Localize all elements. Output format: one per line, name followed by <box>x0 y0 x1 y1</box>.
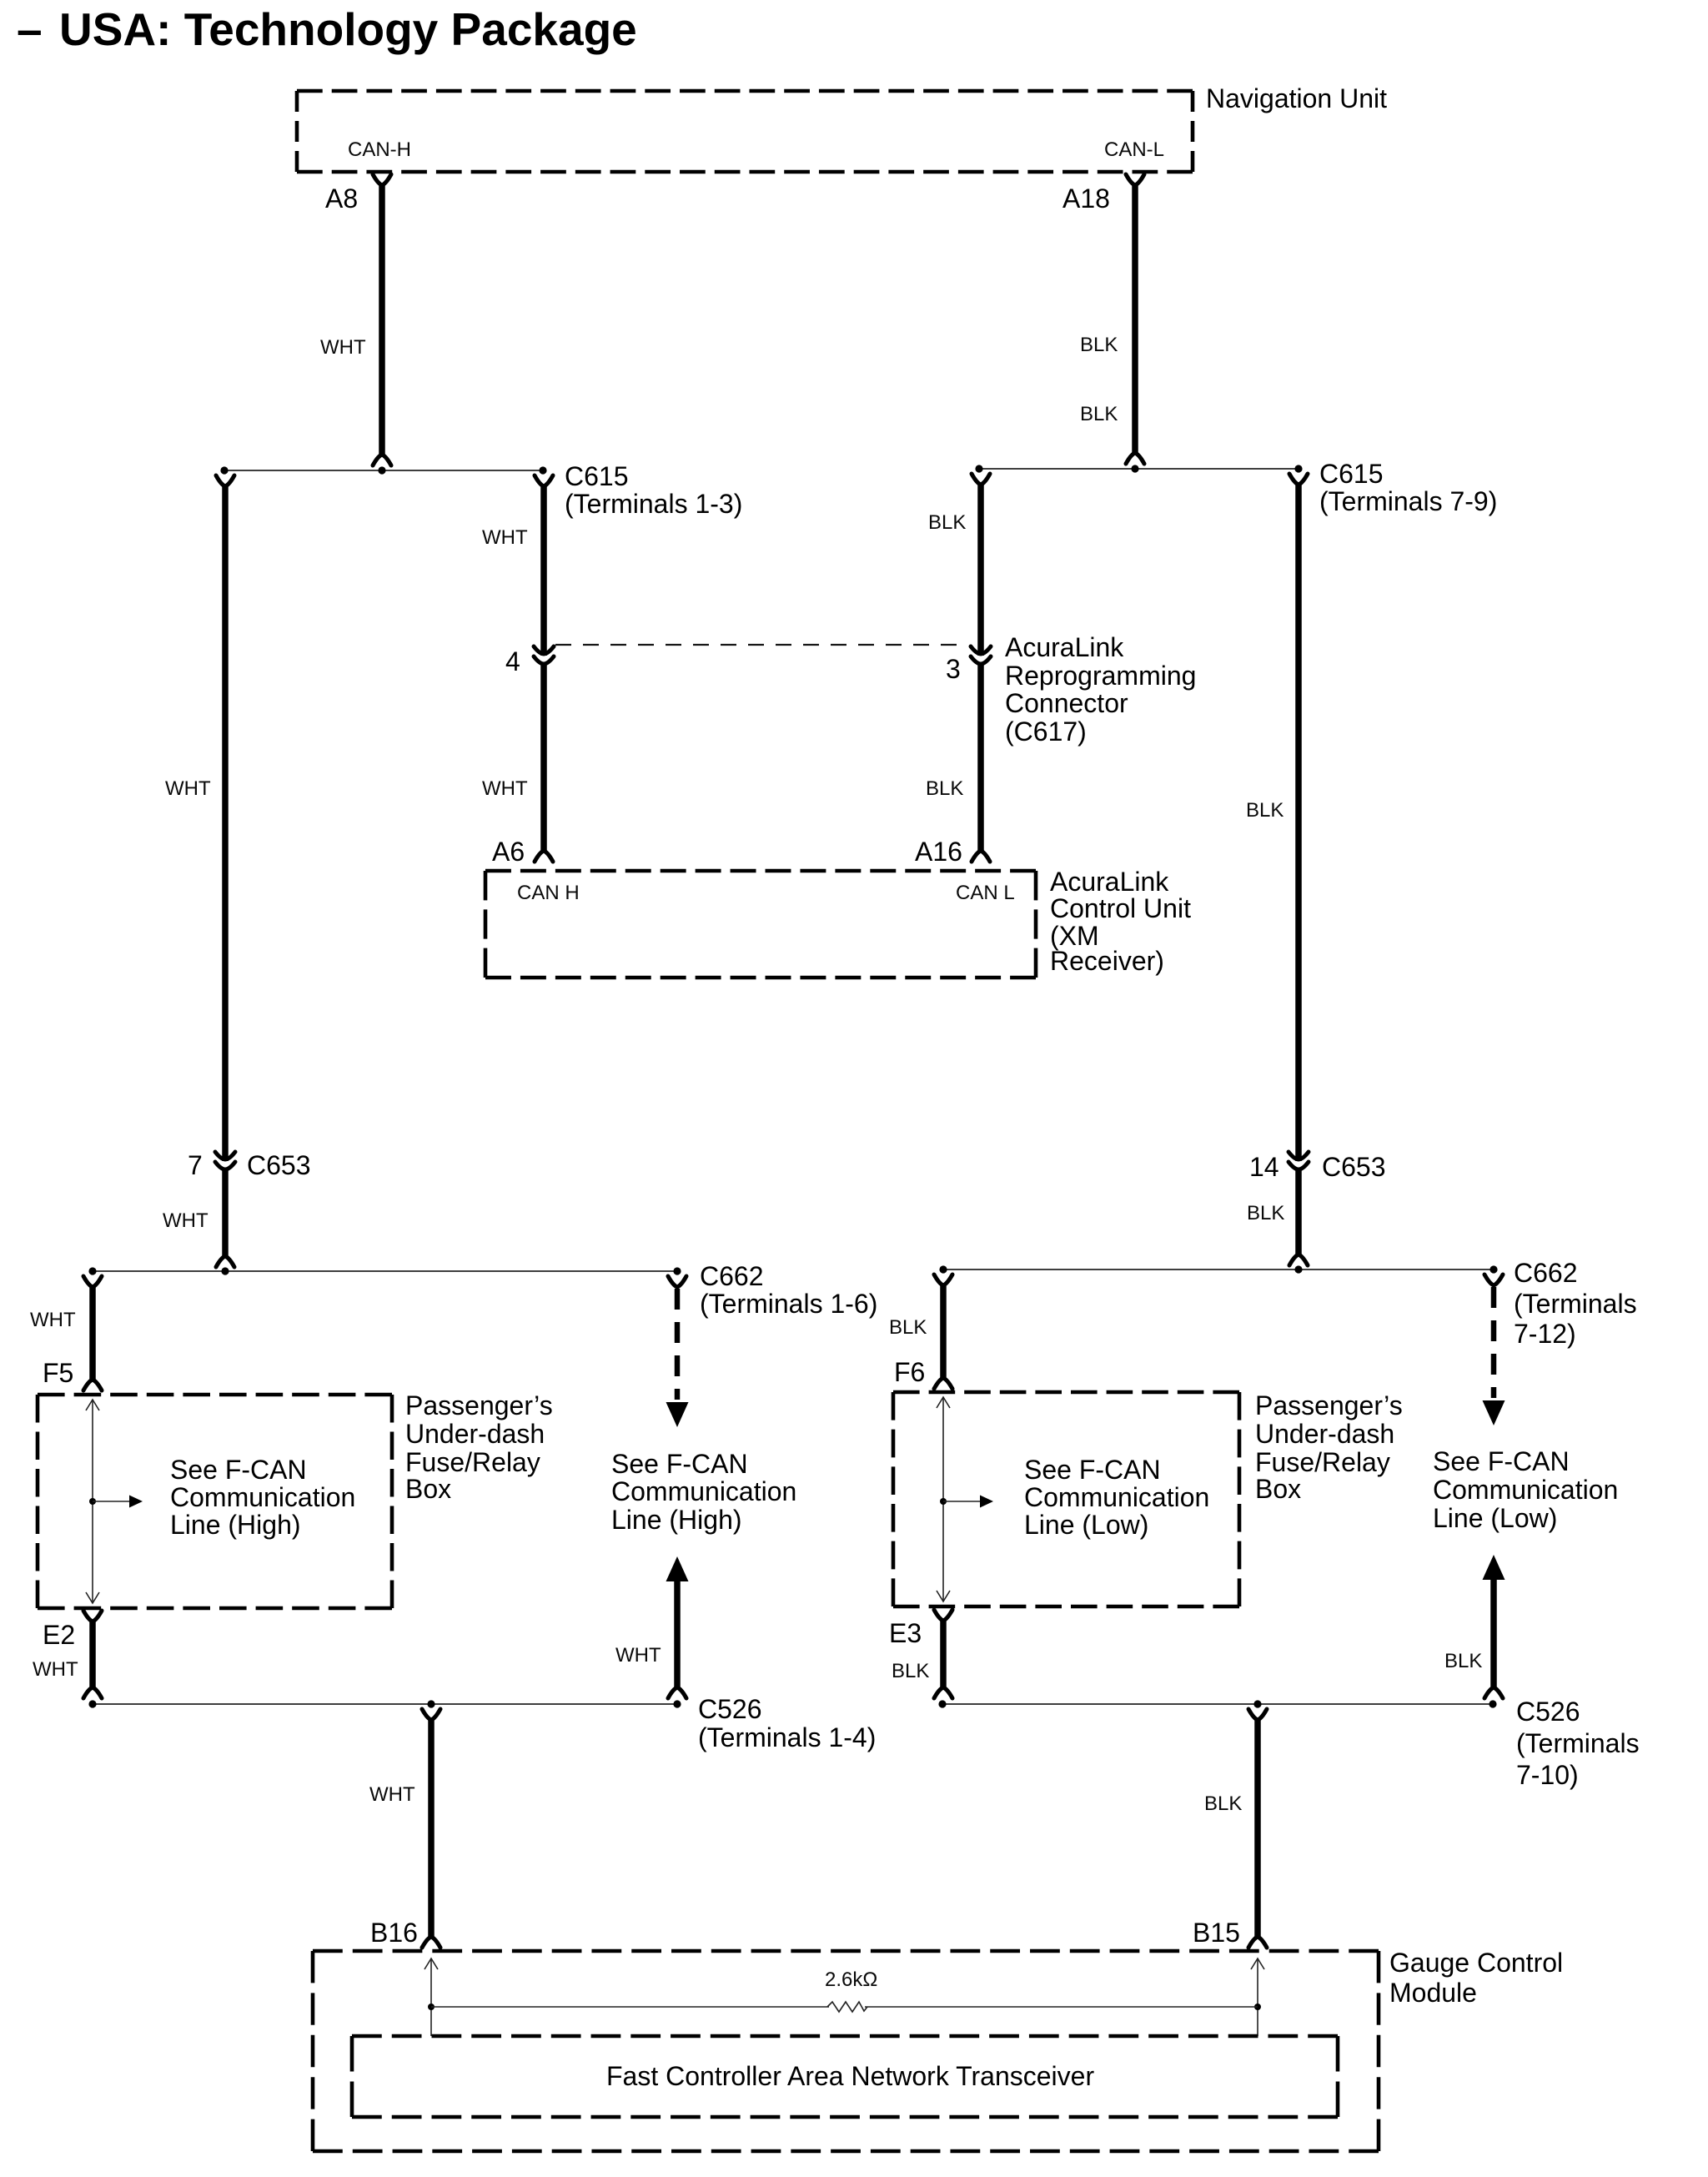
wire WHT: C615 to connector C653 pin 7 <box>216 475 234 486</box>
node dot left <box>975 465 982 472</box>
svg-text:CAN-L: CAN-L <box>1104 138 1164 161</box>
svg-text:7: 7 <box>188 1150 203 1180</box>
svg-text:Communication: Communication <box>170 1482 355 1512</box>
svg-text:4: 4 <box>505 646 520 676</box>
wire BLK: connector 3 to A16 <box>977 662 984 851</box>
svg-text:2.6kΩ: 2.6kΩ <box>825 1968 877 1991</box>
junction line C615 (Terminals 7-9) <box>979 468 1299 470</box>
wire WHT: C662 to F5 <box>83 1276 102 1287</box>
svg-text:Module: Module <box>1389 1978 1477 2008</box>
node dot middle <box>1294 1265 1302 1273</box>
Navigation Unit box <box>297 89 1193 93</box>
svg-text:Passenger’s: Passenger’s <box>1255 1390 1403 1420</box>
svg-text:BLK: BLK <box>926 777 963 800</box>
wire BLK: C653 to C662 <box>1295 1168 1302 1254</box>
node dot middle <box>221 1267 229 1275</box>
inline connector C653 pin 14 <box>1289 1152 1309 1159</box>
wire BLK: C615 to reprogramming connector pin 3 <box>972 474 990 485</box>
svg-text:AcuraLink: AcuraLink <box>1005 632 1124 662</box>
svg-text:(Terminals 7-9): (Terminals 7-9) <box>1319 486 1497 516</box>
arrow WHT: C526 up toward F-CAN line (High) <box>666 1556 689 1581</box>
svg-text:C615: C615 <box>565 461 629 491</box>
node dot middle <box>378 466 385 474</box>
svg-text:WHT: WHT <box>33 1658 78 1681</box>
svg-text:WHT: WHT <box>30 1309 76 1331</box>
svg-text:USA: Technology Package: USA: Technology Package <box>59 3 637 55</box>
svg-text:WHT: WHT <box>165 777 211 800</box>
svg-text:E2: E2 <box>43 1620 75 1650</box>
wire BLK: C615 to connector C653 pin 14 <box>1289 474 1308 485</box>
junction line C662 (Terminals 7-12) <box>943 1269 1494 1270</box>
junction line C526 (Terminals 1-4) <box>93 1703 677 1705</box>
node dot middle <box>427 1700 435 1707</box>
wire WHT: C653 to C662 <box>222 1168 229 1256</box>
Gauge Control Module box <box>313 1949 1379 1953</box>
svg-text:Box: Box <box>405 1474 451 1504</box>
svg-text:B15: B15 <box>1193 1918 1240 1948</box>
svg-text:C653: C653 <box>247 1150 311 1180</box>
svg-text:BLK: BLK <box>1444 1650 1482 1672</box>
svg-text:(Terminals 1-4): (Terminals 1-4) <box>698 1722 876 1752</box>
wire WHT: C615 to reprogramming connector pin 4 <box>535 475 553 486</box>
svg-text:Box: Box <box>1255 1474 1301 1504</box>
svg-text:Fast Controller Area Network T: Fast Controller Area Network Transceiver <box>606 2061 1094 2091</box>
svg-text:C615: C615 <box>1319 459 1384 489</box>
node dot right <box>539 466 546 474</box>
Fast Controller Area Network Transceiver box <box>352 2034 1338 2039</box>
svg-text:BLK: BLK <box>928 511 966 534</box>
svg-text:See F-CAN: See F-CAN <box>1024 1455 1161 1485</box>
node dot middle <box>1131 465 1138 472</box>
svg-text:Communication: Communication <box>1433 1475 1618 1505</box>
svg-text:BLK: BLK <box>1080 403 1118 425</box>
svg-text:Control Unit: Control Unit <box>1050 893 1191 923</box>
svg-text:BLK: BLK <box>1247 1202 1284 1224</box>
svg-text:Reprogramming: Reprogramming <box>1005 661 1196 691</box>
svg-text:A18: A18 <box>1062 184 1110 214</box>
junction line C662 (Terminals 1-6) <box>93 1270 677 1272</box>
svg-text:C662: C662 <box>700 1261 764 1291</box>
wire BLK: E3 to C526 <box>934 1610 952 1621</box>
wire WHT: connector 4 to A6 <box>540 662 547 851</box>
node dot right <box>1294 465 1302 472</box>
internal F-CAN path arrow (left box) <box>92 1400 93 1603</box>
svg-text:WHT: WHT <box>163 1209 208 1232</box>
node dot right <box>673 1700 681 1707</box>
internal lead from B16 <box>430 1958 432 2036</box>
svg-text:Fuse/Relay: Fuse/Relay <box>1255 1447 1390 1477</box>
svg-text:7-10): 7-10) <box>1516 1760 1579 1790</box>
svg-text:7-12): 7-12) <box>1514 1319 1576 1349</box>
svg-text:B16: B16 <box>370 1918 418 1948</box>
svg-text:CAN-H: CAN-H <box>348 138 411 161</box>
svg-text:Connector: Connector <box>1005 688 1128 718</box>
node dot left <box>939 1265 947 1273</box>
svg-text:A8: A8 <box>325 184 358 214</box>
svg-text:A16: A16 <box>915 837 962 867</box>
svg-text:CAN L: CAN L <box>956 882 1015 904</box>
svg-text:Receiver): Receiver) <box>1050 946 1164 976</box>
inline connector C617 pin 3 <box>971 646 991 654</box>
Passenger's Under-dash Fuse/Relay Box (left) <box>38 1393 392 1397</box>
wire BLK: C662 to F6 <box>934 1275 952 1285</box>
wire WHT: Navigation Unit A8 to C615 <box>373 174 391 185</box>
svg-text:WHT: WHT <box>482 526 528 549</box>
svg-text:See F-CAN: See F-CAN <box>611 1449 748 1479</box>
wire BLK: Navigation Unit A18 to C615 <box>1126 174 1144 185</box>
svg-text:WHT: WHT <box>320 336 366 359</box>
inline connector C653 pin 7 <box>215 1152 235 1159</box>
junction line C526 (Terminals 7-10) <box>942 1703 1493 1705</box>
wire WHT: E2 to C526 <box>83 1611 102 1621</box>
dashed link wire of connector C617 <box>555 644 967 646</box>
inline connector C617 pin 4 <box>534 646 554 654</box>
arrow BLK: C526 up toward F-CAN line (Low) <box>1483 1555 1505 1580</box>
node dot middle <box>1253 1700 1261 1707</box>
node dot left <box>220 466 228 474</box>
node dot left <box>938 1700 946 1707</box>
svg-text:BLK: BLK <box>892 1660 929 1682</box>
node dot right <box>673 1267 681 1275</box>
node dot left <box>88 1267 96 1275</box>
svg-text:WHT: WHT <box>615 1644 661 1667</box>
svg-text:3: 3 <box>946 654 961 684</box>
svg-text:F6: F6 <box>894 1357 925 1387</box>
svg-text:See F-CAN: See F-CAN <box>170 1455 307 1485</box>
svg-text:E3: E3 <box>889 1618 922 1648</box>
svg-text:C526: C526 <box>1516 1697 1580 1727</box>
svg-text:BLK: BLK <box>889 1316 927 1339</box>
resistor 2.6k ohm <box>431 2006 829 2008</box>
dashed arrow: C662 to F-CAN Communication Line (Low) <box>1484 1275 1503 1285</box>
svg-text:(Terminals: (Terminals <box>1514 1289 1637 1319</box>
wire WHT: C526 to B16 <box>422 1709 440 1720</box>
svg-text:(C617): (C617) <box>1005 716 1087 747</box>
svg-text:C526: C526 <box>698 1694 762 1724</box>
svg-text:F5: F5 <box>43 1358 73 1388</box>
svg-text:A6: A6 <box>492 837 525 867</box>
svg-text:Line (Low): Line (Low) <box>1433 1503 1557 1533</box>
svg-text:CAN H: CAN H <box>517 882 580 904</box>
svg-text:BLK: BLK <box>1246 799 1284 822</box>
svg-text:BLK: BLK <box>1204 1792 1242 1815</box>
svg-text:Under-dash: Under-dash <box>405 1419 545 1449</box>
svg-text:(Terminals 1-6): (Terminals 1-6) <box>700 1289 877 1319</box>
svg-text:Communication: Communication <box>611 1476 796 1506</box>
svg-text:Passenger’s: Passenger’s <box>405 1390 553 1420</box>
Passenger's Under-dash Fuse/Relay Box (right) <box>893 1390 1239 1395</box>
node dot left <box>88 1700 96 1707</box>
svg-text:WHT: WHT <box>482 777 528 800</box>
internal F-CAN path arrow (right box) <box>942 1397 944 1601</box>
svg-text:C662: C662 <box>1514 1258 1578 1288</box>
node dot right <box>1489 1265 1497 1273</box>
svg-text:AcuraLink: AcuraLink <box>1050 867 1169 897</box>
junction line C615 (Terminals 1-3) <box>224 470 543 471</box>
node dot right <box>1489 1700 1496 1707</box>
svg-text:(Terminals 1-3): (Terminals 1-3) <box>565 489 742 519</box>
svg-text:Line (High): Line (High) <box>170 1510 301 1540</box>
svg-text:14: 14 <box>1249 1152 1279 1182</box>
svg-text:Under-dash: Under-dash <box>1255 1419 1394 1449</box>
svg-text:Navigation Unit: Navigation Unit <box>1206 83 1387 113</box>
svg-text:–: – <box>17 3 43 55</box>
svg-text:WHT: WHT <box>369 1783 415 1806</box>
svg-text:Communication: Communication <box>1024 1482 1209 1512</box>
svg-text:(Terminals: (Terminals <box>1516 1728 1640 1758</box>
svg-text:Gauge Control: Gauge Control <box>1389 1948 1563 1978</box>
svg-text:Line (High): Line (High) <box>611 1505 742 1535</box>
svg-text:Line (Low): Line (Low) <box>1024 1510 1148 1540</box>
svg-text:BLK: BLK <box>1080 334 1118 356</box>
dashed arrow: C662 to F-CAN Communication Line (High) <box>668 1276 686 1287</box>
svg-text:C653: C653 <box>1322 1152 1386 1182</box>
internal lead from B15 <box>1257 1958 1258 2036</box>
AcuraLink Control Unit (XM Receiver) box <box>485 869 1036 873</box>
svg-text:Fuse/Relay: Fuse/Relay <box>405 1447 540 1477</box>
svg-text:See F-CAN: See F-CAN <box>1433 1446 1570 1476</box>
wire BLK: C526 to B15 <box>1248 1709 1267 1720</box>
